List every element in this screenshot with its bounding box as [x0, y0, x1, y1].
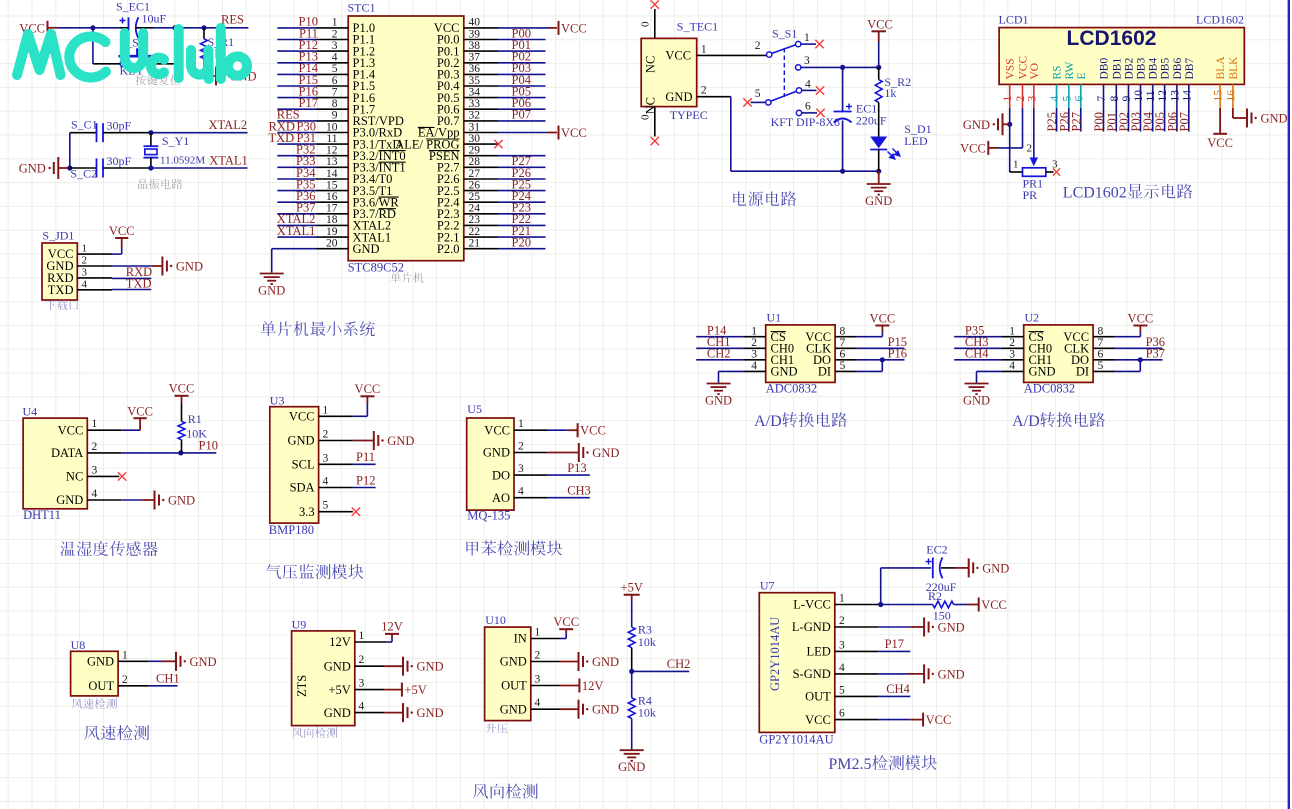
U3 pin 5 name 3.3: [299, 505, 315, 519]
connector S_JD1 box: [42, 243, 77, 300]
svg-text:GND: GND: [963, 394, 990, 408]
switch pin number 1: [804, 32, 810, 44]
MCU pin 21 name P2.0: [437, 242, 460, 256]
MCU pin 5 number: [332, 63, 338, 75]
caption LCD1602显示电路: [1063, 184, 1192, 202]
caption 甲苯检测模块: [466, 540, 562, 555]
LCD pin 9 name DB2: [1124, 58, 1136, 80]
U9 pin 3 name +5V: [328, 683, 350, 697]
MCU pin 28 lead: [464, 166, 498, 168]
svg-text:12: 12: [1157, 90, 1169, 102]
svg-text:20: 20: [326, 238, 338, 250]
MCU pin 3 lead: [317, 50, 349, 52]
MCU pin 3 number: [332, 40, 338, 52]
U2 pin 5 lead: [1093, 370, 1114, 372]
net label P22: [512, 212, 531, 226]
net label P26 (rotated): [1057, 112, 1071, 131]
ground GND (U5): [579, 443, 620, 462]
ground GND (U9 pin2): [403, 657, 444, 676]
U1 pin 2 lead: [743, 347, 765, 349]
svg-text:P11: P11: [356, 450, 375, 464]
net label P06: [512, 96, 531, 110]
MCU pin 29 name PSEN: [429, 149, 460, 163]
LCD pin 13 number: [1169, 90, 1181, 102]
MCU pin 3 name P1.2: [353, 44, 376, 58]
net label P02 (rotated): [1117, 112, 1131, 131]
ground GND (LCD right): [1247, 109, 1288, 128]
ground GND (U4): [155, 491, 196, 510]
svg-text:VCC: VCC: [484, 423, 510, 437]
caption PM2.5检测模块: [828, 755, 936, 773]
MCU pin 7 lead: [317, 97, 349, 99]
MCU pin 38 name P0.1: [437, 44, 460, 58]
U2 pin 3 number: [1009, 349, 1015, 361]
connector S_TEC1 designator: [677, 20, 718, 34]
svg-text:ADC0832: ADC0832: [1024, 382, 1075, 396]
MCU pin 4 number: [332, 52, 338, 64]
MCU pin 18 lead: [317, 224, 349, 226]
MCU pin 30 lead: [464, 143, 498, 145]
U7 pin 6 name VCC: [805, 713, 831, 727]
svg-text:4: 4: [839, 662, 845, 674]
svg-text:GND: GND: [483, 446, 510, 460]
U9 pin3 wire to +5V: [355, 689, 402, 691]
svg-text:30pF: 30pF: [107, 119, 132, 133]
svg-text:1: 1: [1009, 326, 1015, 338]
svg-text:P17: P17: [299, 96, 318, 110]
LCD pin 12 number: [1157, 90, 1169, 102]
U9 pin2 GND wire: [355, 665, 403, 667]
MCU pin 10 name P3.0/RxD: [353, 126, 403, 140]
svg-text:6: 6: [1073, 96, 1085, 102]
svg-text:8: 8: [1109, 96, 1121, 102]
U10 value 升压: [486, 723, 508, 733]
power port VCC (U4 pin1): [127, 405, 153, 431]
LCD pin 1 number: [1002, 96, 1014, 102]
switch S_S1 linkage dashed: [783, 48, 785, 97]
wire P03 net: [498, 73, 546, 75]
U2 pin 8 name VCC: [1063, 330, 1089, 344]
svg-text:S_C1: S_C1: [71, 118, 98, 132]
svg-text:DI: DI: [818, 365, 831, 379]
logo MCUclub: [17, 28, 247, 79]
svg-text:2: 2: [535, 650, 541, 662]
wire P01 net: [498, 50, 546, 52]
net label CH4: [886, 682, 910, 696]
U2 pin 1 name CS: [1029, 330, 1044, 344]
net label P12: [356, 473, 375, 487]
LCD pin 8 number: [1109, 96, 1121, 102]
svg-text:MQ-135: MQ-135: [467, 509, 510, 523]
no-connect X (TYPEC top): [651, 0, 659, 8]
svg-text:P37: P37: [1146, 347, 1165, 361]
module U9 box: [292, 631, 355, 726]
svg-text:0: 0: [640, 114, 652, 120]
resistor S_R1 1k: [201, 28, 235, 76]
wire LCD pin 4: [1056, 108, 1058, 132]
svg-text:VCC: VCC: [1128, 312, 1154, 326]
U2 pin 7 number: [1098, 337, 1104, 349]
svg-text:GND: GND: [417, 660, 444, 674]
MCU pin 30 name ALE/PROG: [395, 137, 459, 151]
svg-text:DB7: DB7: [1184, 58, 1196, 80]
wire U1 GND: [719, 371, 744, 383]
svg-text:CH4: CH4: [886, 682, 910, 696]
wire P06 net: [498, 108, 546, 110]
svg-text:1: 1: [839, 593, 845, 605]
U2 pin 6 name DO: [1071, 353, 1089, 367]
svg-text:3: 3: [1026, 96, 1038, 102]
svg-text:1: 1: [122, 649, 128, 661]
connector value TYPEC: [670, 108, 708, 122]
net label P17: [299, 96, 318, 110]
svg-text:30pF: 30pF: [107, 154, 132, 168]
power port 12V (U9): [381, 620, 403, 639]
svg-text:GND: GND: [665, 90, 692, 104]
svg-text:VCC: VCC: [805, 713, 831, 727]
wire JD1 pin2 to GND: [112, 265, 162, 267]
svg-text:IN: IN: [514, 632, 527, 646]
MCU pin 5 name P1.4: [353, 68, 376, 82]
svg-text:VCC: VCC: [58, 423, 84, 437]
svg-text:GND: GND: [592, 446, 619, 460]
caption 晶振电路: [138, 179, 182, 189]
U7 pin 4 number: [839, 662, 845, 674]
U1 pin 1 name CS: [771, 330, 786, 344]
U2 pin 4 number: [1009, 360, 1015, 372]
svg-text:10k: 10k: [638, 706, 656, 720]
LCD pin 8 stub: [1115, 84, 1117, 108]
svg-text:15: 15: [1213, 90, 1225, 102]
MCU pin 28 name P2.7: [437, 161, 460, 175]
no-connect X (pin30): [494, 140, 502, 148]
net label P27 (rotated): [1069, 112, 1083, 131]
U1 pin 8 name VCC: [805, 330, 831, 344]
MCU pin 20 lead: [317, 248, 349, 250]
MCU pin 18 name XTAL2: [353, 219, 392, 233]
U9 pin4 GND wire: [355, 712, 403, 714]
U1 pin 7 lead: [835, 347, 856, 349]
net label P07 (rotated): [1177, 112, 1191, 131]
svg-text:6: 6: [840, 349, 846, 361]
wire VSS down: [1009, 108, 1011, 172]
svg-text:8: 8: [1098, 326, 1104, 338]
U4 pin2 DATA wire: [87, 452, 216, 454]
MCU pin 23 name P2.2: [437, 219, 460, 233]
svg-text:GND: GND: [168, 494, 195, 508]
svg-text:3: 3: [332, 40, 338, 52]
U2 pin 3 name CH1: [1029, 353, 1053, 367]
MCU pin 33 number: [469, 98, 481, 110]
U4 pin 4 number: [92, 488, 98, 500]
net label P00: [512, 26, 531, 40]
MCU pin 38 number: [469, 40, 481, 52]
svg-text:P20: P20: [512, 236, 531, 250]
svg-text:5: 5: [1061, 96, 1073, 102]
MCU pin 12 lead: [317, 155, 349, 157]
svg-text:GP2Y1014AU: GP2Y1014AU: [759, 733, 833, 747]
svg-text:13: 13: [326, 156, 338, 168]
wire RES net: [277, 120, 316, 122]
wire P11 net: [277, 39, 316, 41]
power port VCC (U2): [1128, 312, 1154, 333]
no-connect X (switch pin5): [743, 98, 751, 106]
LCD pin 4 name RS: [1052, 65, 1064, 79]
MCU pin 2 number: [332, 28, 338, 40]
MCU pin 36 number: [469, 63, 481, 75]
svg-text:7: 7: [332, 86, 338, 98]
net label P33: [296, 154, 315, 168]
svg-text:P17: P17: [885, 637, 904, 651]
wire U2 VCC: [1115, 332, 1141, 337]
MCU pin 34 name P0.5: [437, 91, 460, 105]
U3 pin3 SCL wire: [319, 463, 376, 465]
svg-text:12V: 12V: [582, 679, 604, 693]
wire LCD pin 14: [1188, 108, 1190, 132]
power port VCC (U7 pin6): [923, 713, 951, 728]
svg-text:SCL: SCL: [292, 458, 315, 472]
svg-text:2: 2: [82, 255, 88, 267]
svg-text:VCC: VCC: [1207, 136, 1233, 150]
MCU pin 6 name P1.5: [353, 79, 376, 93]
U1 pin 7 number: [840, 337, 846, 349]
svg-text:S_S1: S_S1: [772, 27, 797, 41]
U7 pin 5 number: [839, 684, 845, 696]
MCU pin 19 lead: [317, 236, 349, 238]
U10 pin 1 number: [535, 627, 541, 639]
svg-text:SDA: SDA: [290, 481, 315, 495]
MCU pin 31 name EA/Vpp: [418, 126, 460, 140]
svg-text:GND: GND: [387, 434, 414, 448]
MCU pin 4 lead: [317, 62, 349, 64]
U5 pin3 DO wire: [514, 474, 590, 476]
U10 pin 2 number: [535, 650, 541, 662]
wire P23 net: [498, 213, 546, 215]
svg-text:18: 18: [326, 214, 338, 226]
sheet right border: [1288, 0, 1290, 809]
svg-text:VCC: VCC: [127, 405, 153, 419]
svg-text:L-VCC: L-VCC: [793, 598, 831, 612]
MCU pin 34 lead: [464, 97, 498, 99]
svg-text:DB0: DB0: [1099, 58, 1111, 80]
MCU pin 12 name P3.2/INT0: [353, 149, 406, 163]
wire VCC (pin40): [498, 27, 557, 29]
power port VCC (JD1): [109, 224, 135, 238]
svg-text:5: 5: [1098, 360, 1104, 372]
U3 pin 3 number: [323, 452, 329, 464]
svg-text:2: 2: [1015, 96, 1027, 102]
U8 pin 1 number: [122, 649, 128, 661]
power port VCC (U5): [578, 423, 606, 438]
net label P14: [707, 324, 727, 338]
MCU pin 24 lead: [464, 213, 498, 215]
svg-text:4: 4: [1009, 360, 1015, 372]
U7 pin2 wire: [835, 626, 924, 628]
U1 pin 8 lead: [835, 336, 856, 338]
svg-text:TXD: TXD: [126, 276, 152, 290]
MCU pin 11 number: [326, 133, 337, 145]
MCU pin 31 lead: [464, 132, 498, 134]
svg-text:11: 11: [1145, 90, 1157, 101]
svg-text:S_JD1: S_JD1: [42, 229, 74, 243]
resistor R2 150: [928, 589, 979, 623]
svg-text:PR: PR: [1023, 188, 1038, 202]
wire pin1 to R2: [878, 604, 933, 606]
ground GND (LCD left): [963, 113, 1010, 135]
TYPEC pin 1 lead: [697, 43, 767, 55]
wire P10 net: [277, 27, 316, 29]
svg-text:27: 27: [469, 168, 481, 180]
svg-text:2: 2: [332, 28, 338, 40]
svg-text:P07: P07: [512, 108, 531, 122]
caption 电源电路: [733, 191, 796, 206]
U1 pin 6 lead: [835, 359, 856, 361]
svg-text:38: 38: [469, 40, 481, 52]
net label P01 (rotated): [1105, 112, 1119, 131]
net label P26: [512, 166, 531, 180]
U5 pin2 GND wire: [514, 452, 579, 454]
LCD pin 2 number: [1015, 96, 1027, 102]
wire LCD pin 13: [1176, 108, 1178, 132]
LCD pin 7 stub: [1103, 84, 1105, 108]
svg-text:15: 15: [326, 179, 338, 191]
U10 pin 3 number: [535, 674, 541, 686]
push-button S_S1 (KEY): [119, 36, 157, 78]
U5 pin 3 number: [518, 463, 524, 475]
wire EA/Vpp to VCC (pin31): [498, 132, 557, 134]
ADC U1 designator: [767, 311, 782, 325]
net label P24: [512, 189, 532, 203]
svg-text:1: 1: [359, 630, 365, 642]
U7 pin 3 name LED: [806, 645, 830, 659]
LCD pin 10 stub: [1140, 84, 1142, 108]
LCD pin 16 number: [1225, 90, 1237, 102]
U1 pin 5 lead: [835, 370, 856, 372]
svg-text:U4: U4: [23, 405, 38, 419]
MCU pin 4 name P1.3: [353, 56, 376, 70]
svg-text:2: 2: [518, 441, 524, 453]
MCU pin 40 name VCC: [434, 21, 460, 35]
node junction U1 DO-DI: [880, 357, 885, 362]
MCU pin 32 name P0.7: [437, 114, 460, 128]
LCD pin 3 name VO: [1029, 63, 1041, 80]
svg-text:DB2: DB2: [1124, 58, 1136, 80]
wire CH3 net: [954, 347, 1001, 349]
MCU pin 33 lead: [464, 108, 498, 110]
wire TXD: [112, 289, 151, 291]
U1 pin 7 name CLK: [806, 342, 831, 356]
module U7 box: [759, 593, 835, 733]
LCD pin 12 stub: [1164, 84, 1166, 108]
U10 pin 1 name IN: [514, 632, 527, 646]
svg-text:NC: NC: [644, 56, 658, 73]
MCU pin 8 number: [332, 98, 338, 110]
MCU pin 9 name RST/VPD: [353, 114, 404, 128]
svg-text:1: 1: [332, 17, 338, 29]
svg-text:7: 7: [840, 337, 846, 349]
svg-text:GND: GND: [258, 284, 285, 298]
power port VCC (R1 top): [169, 382, 195, 404]
MCU pin 1 lead: [317, 27, 349, 29]
svg-text:24: 24: [469, 203, 481, 215]
MCU pin 33 name P0.6: [437, 102, 460, 116]
node junction EC1 bottom: [840, 169, 845, 174]
svg-text:VO: VO: [1029, 63, 1041, 80]
svg-text:P10: P10: [199, 439, 218, 453]
svg-text:+5V: +5V: [328, 683, 350, 697]
pin 4 TXD of S_JD1: [48, 278, 112, 297]
wire P32 net: [277, 155, 316, 157]
MCU pin 6 number: [332, 75, 338, 87]
U2 pin 1 number: [1009, 326, 1015, 338]
switch S_S1 designator: [772, 27, 797, 41]
U7 pin 2 number: [839, 615, 845, 627]
LCD pin 1 name VSS: [1005, 58, 1017, 79]
svg-text:2: 2: [839, 615, 845, 627]
svg-text:VCC: VCC: [580, 424, 606, 438]
wire VCC rail to cap: [58, 27, 128, 29]
wire P22 net: [498, 224, 546, 226]
net label CH3: [965, 335, 989, 349]
U3 pin 1 name VCC: [289, 410, 315, 424]
no-connect X (switch pin6): [816, 109, 824, 117]
MCU pin 19 number: [326, 226, 338, 238]
svg-text:36: 36: [469, 63, 481, 75]
svg-text:4: 4: [1049, 96, 1061, 102]
MCU pin 30 number: [469, 133, 481, 145]
U4 pin4 GND wire: [87, 499, 154, 501]
U7 pin 3 number: [839, 639, 845, 651]
ground GND (reset): [204, 66, 257, 85]
svg-text:1: 1: [751, 326, 757, 338]
sensor U4 box: [23, 418, 87, 509]
node junction R2 top: [876, 65, 881, 70]
svg-text:U8: U8: [71, 638, 86, 652]
pin 3 RXD of S_JD1: [47, 266, 112, 285]
svg-text:13: 13: [1169, 90, 1181, 102]
U5 pin 1 name VCC: [484, 423, 510, 437]
TYPEC pin VCC name: [665, 49, 691, 63]
svg-text:GND: GND: [865, 194, 892, 208]
LCD pin 14 number: [1181, 90, 1193, 102]
U1 pin 6 number: [840, 349, 846, 361]
caption 单片机: [390, 272, 423, 283]
svg-text:DB3: DB3: [1136, 58, 1148, 80]
U7 pin 2 name L-GND: [792, 620, 831, 634]
wire P37 net: [1115, 359, 1163, 361]
wire VCC to R2: [878, 42, 880, 67]
LCD pin 11 number: [1145, 90, 1157, 101]
ground GND (U1): [705, 384, 732, 408]
LCD pin 7 name DB0: [1099, 58, 1111, 80]
U5 pin 3 name DO: [492, 468, 510, 482]
net label XTAL1 (pin19): [277, 224, 316, 238]
svg-text:STC1: STC1: [348, 1, 376, 15]
svg-text:VCC: VCC: [926, 713, 952, 727]
capacitor EC1 220uF: [834, 67, 887, 171]
U4 pin1 lead+wire: [87, 429, 140, 431]
MCU STC1 box: [348, 16, 464, 261]
svg-text:TXD: TXD: [269, 131, 295, 145]
svg-text:XTAL2: XTAL2: [209, 118, 248, 132]
U2 pin 3 lead: [1001, 359, 1023, 361]
caption 风向检测 (bottom): [473, 784, 538, 799]
svg-text:GND: GND: [176, 260, 203, 274]
MCU pin 39 lead: [464, 39, 498, 41]
MCU pin 26 number: [469, 179, 481, 191]
svg-text:DATA: DATA: [51, 446, 83, 460]
MCU pin 7 number: [332, 86, 338, 98]
